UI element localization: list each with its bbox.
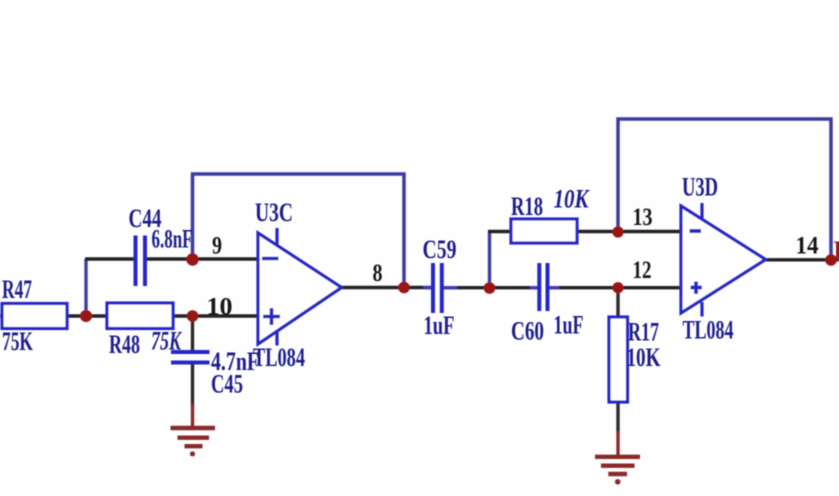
svg-text:U3D: U3D (682, 173, 718, 202)
svg-text:75K: 75K (2, 327, 34, 356)
svg-text:R48: R48 (109, 330, 140, 359)
wire: R47 output to node A (0, 314, 107, 317)
clipped red label fragment at right edge (834, 237, 839, 264)
wire: node A riser to C44 branch (vertical) (84, 259, 87, 316)
svg-text:D: D (834, 237, 839, 264)
svg-text:10K: 10K (554, 185, 590, 214)
wire: C59 to C60 through node B (444, 286, 539, 289)
wire: U3C feedback loop (output to pin9 node) (193, 174, 405, 288)
svg-text:8: 8 (373, 260, 383, 287)
wire: U3C output to C59 (341, 286, 432, 289)
svg-text:10K: 10K (627, 343, 662, 372)
pin number 13 (633, 204, 653, 231)
wire: U3D output pin 14 to right edge (765, 258, 839, 261)
capacitor C59 1uF (423, 235, 458, 340)
svg-text:13: 13 (633, 204, 653, 231)
pin number 8 (373, 260, 383, 287)
wire: node B riser to R18 (vertical) (488, 232, 491, 289)
wire: R18 right lead / pin 13 wire into U3D - input (577, 230, 681, 233)
svg-text:TL084: TL084 (253, 343, 305, 372)
svg-text:1uF: 1uF (424, 311, 455, 340)
resistor R48 (107, 303, 182, 359)
node D junction pin10/R48/C45 (187, 310, 199, 322)
svg-text:R47: R47 (2, 275, 32, 304)
wire: node C down to R17 (616, 288, 619, 317)
ground G1 (below C45) (171, 428, 216, 456)
node A junction (R47/R48/C44) (80, 310, 92, 322)
node junction pin13/R18/feedback (612, 226, 623, 237)
pin number 14 (796, 233, 819, 260)
wire: R18 left lead (488, 230, 511, 233)
resistor R17 10K (609, 317, 661, 402)
svg-text:14: 14 (796, 233, 819, 260)
svg-text:U3C: U3C (255, 198, 293, 227)
svg-text:R18: R18 (511, 192, 543, 221)
wire: R48 output / pin10 wire to U3C + input (173, 314, 258, 317)
svg-text:1uF: 1uF (554, 311, 584, 340)
capacitor C60 1uF (511, 263, 584, 346)
svg-text:6.8nF: 6.8nF (152, 225, 193, 254)
wire: U3D feedback loop (output to pin13 node) (618, 119, 831, 260)
capacitor C45 4.7nF (171, 347, 259, 399)
svg-text:12: 12 (633, 257, 652, 284)
resistor R18 10K (511, 185, 590, 244)
pin number 10 (207, 294, 233, 321)
svg-text:C59: C59 (423, 235, 457, 264)
op-amp U3C TL084 (253, 198, 342, 372)
node junction U3D output/feedback (825, 254, 837, 266)
resistor R47 (2, 275, 67, 356)
capacitor C44 6.8nF (129, 204, 193, 286)
wire: C45 to ground G1 (191, 363, 194, 427)
op-amp U3D TL084 (681, 173, 766, 345)
node junction U3C output/feedback (398, 282, 410, 294)
node junction pin9/C44/feedback (186, 253, 198, 265)
svg-text:C60: C60 (511, 317, 544, 346)
svg-text:C45: C45 (211, 370, 243, 399)
node C junction pin12/C60/R17 (612, 282, 623, 293)
pin number 12 (633, 257, 652, 284)
wire: C44 left lead (85, 257, 134, 260)
svg-text:TL084: TL084 (683, 316, 734, 345)
ground G2 (below R17) (595, 457, 640, 485)
wire: C60 to U3D + input (pin 12 wire) (549, 286, 681, 289)
svg-text:10: 10 (207, 294, 233, 321)
pin number 9 (212, 233, 222, 260)
wire: R17 to ground G2 (616, 402, 619, 455)
wire: C44 right lead / pin 9 wire into U3C - input (146, 257, 258, 260)
svg-text:9: 9 (212, 233, 222, 260)
node B junction C59/R18/C60 (484, 282, 496, 294)
wire: node D down to C45 (191, 316, 194, 352)
